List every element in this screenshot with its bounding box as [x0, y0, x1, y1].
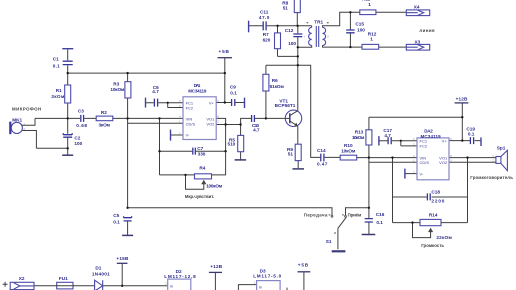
- transistor Q1 : VT1 BCP56T1: [285, 110, 301, 126]
- svg-text:100: 100: [74, 141, 82, 146]
- microphone MK1: [11, 122, 22, 133]
- svg-text:4.7: 4.7: [253, 128, 260, 133]
- svg-text:+15В: +15В: [116, 256, 129, 261]
- wire: S1 pole: [337, 228, 339, 249]
- node: FC jumper DA2: [400, 140, 402, 142]
- capacitor C12: [293, 34, 302, 37]
- wire: C11 input run y=25.8: [249, 25, 312, 27]
- wire: D3 input segment: [238, 285, 256, 290]
- node: V+ wire junction DA1: [224, 101, 226, 103]
- svg-text:0.1: 0.1: [230, 91, 237, 96]
- svg-text:C1: C1: [53, 56, 59, 61]
- svg-text:C7: C7: [197, 146, 203, 151]
- wire: R8 bottom lead: [296, 13, 298, 26]
- svg-text:FC2: FC2: [420, 144, 428, 149]
- node A: C1/R1/rail junction: [67, 72, 69, 74]
- node: R14 wiper tap junction: [411, 221, 413, 223]
- svg-text:R6: R6: [272, 78, 278, 83]
- wire: C1/R1/C2 vertical column: [67, 50, 69, 156]
- capacitor C6 (terminal bar + plates): [145, 98, 147, 108]
- wire: C18 run: [393, 196, 468, 198]
- node: TR1 primary bottom junction: [297, 46, 299, 48]
- svg-text:+12В: +12В: [210, 264, 222, 269]
- switch S1 pole tick: [334, 232, 336, 234]
- svg-text:X4: X4: [414, 4, 420, 9]
- svg-text:1N4001: 1N4001: [92, 271, 110, 276]
- wire: mic signal wire y=118.4: [35, 117, 183, 119]
- power +5V symbol (bottom): [298, 271, 311, 273]
- ground (R9): [293, 168, 305, 170]
- svg-text:+5В: +5В: [219, 49, 230, 54]
- svg-text:C2: C2: [74, 136, 80, 141]
- wire: C16 leads: [368, 208, 370, 234]
- wire: TR1 primary top stub: [311, 26, 313, 28]
- wire: +5V bottom tap: [303, 272, 305, 290]
- wire: C18/R14 loop left vertical: [392, 158, 394, 223]
- svg-text:22кОм: 22кОм: [436, 235, 452, 240]
- regulator D2 LM117-12.8: [168, 279, 191, 290]
- node: VO1/VO2 crossing junction: [224, 123, 226, 125]
- svg-text:51: 51: [283, 6, 289, 11]
- wire: R6 top to collector node: [266, 64, 298, 66]
- wire: S1 lever: [338, 217, 346, 228]
- svg-text:линия: линия: [419, 28, 435, 33]
- svg-text:II: II: [327, 34, 329, 38]
- svg-text:FU1: FU1: [59, 276, 68, 281]
- wire: mic pin1 to signal wire: [23, 118, 36, 125]
- capacitor C17 (terminal bar + plates): [378, 136, 380, 145]
- capacitor C1: [62, 48, 73, 50]
- potentiometer R14: [420, 219, 441, 225]
- node: C10/R6 junction: [265, 117, 267, 119]
- node: receive/C16/R13 junction: [368, 207, 370, 209]
- wire: R4 wiper loop: [186, 175, 204, 189]
- potentiometer R4: [195, 174, 212, 179]
- wire: C17 to DA2 FC jumper: [379, 141, 417, 146]
- wire: C7 feedback run y=151.2: [160, 150, 226, 152]
- resistor R10: [340, 155, 357, 160]
- svg-text:10кОм: 10кОм: [341, 148, 356, 153]
- wire: DA2 CD/S pin wire: [369, 161, 417, 163]
- wire: +12V rail y=117.2: [369, 116, 462, 118]
- ground (C5): [122, 234, 133, 236]
- node: R7/collector junction: [297, 55, 299, 57]
- svg-text:R13: R13: [355, 130, 364, 135]
- wire: TR1 secondary bottom to R12: [323, 45, 363, 47]
- wire: R6 column: [265, 65, 267, 118]
- svg-text:LM117-5.0: LM117-5.0: [253, 274, 281, 279]
- svg-text:100: 100: [288, 41, 296, 46]
- svg-text:Громкоговоритель: Громкоговоритель: [470, 175, 513, 180]
- switch S1 receive contact: [345, 215, 347, 217]
- capacitor C5: [124, 218, 132, 221]
- svg-text:100кОм: 100кОм: [206, 183, 223, 188]
- power +12V symbol (bottom): [209, 271, 222, 273]
- svg-text:Мкр.чувствит.: Мкр.чувствит.: [185, 194, 214, 199]
- svg-text:S1: S1: [326, 239, 332, 244]
- wire: R10/C14 to DA2 VIN: [357, 157, 417, 159]
- capacitor C3: [81, 115, 84, 122]
- svg-text:C16: C16: [376, 212, 385, 217]
- svg-text:0.68: 0.68: [76, 123, 87, 128]
- svg-text:LM117-12,8: LM117-12,8: [164, 274, 196, 279]
- wire: R13 column: [368, 117, 370, 208]
- node: FC jumper DA1: [167, 102, 169, 104]
- resistor R13: [366, 130, 372, 145]
- svg-text:MK1: MK1: [12, 118, 22, 123]
- wire: DA2 VO1 to speaker: [449, 157, 496, 159]
- wire: R14 bottom run: [393, 222, 468, 224]
- node: R13/VIN wire DA2 junction: [368, 156, 370, 158]
- svg-text:+12В: +12В: [456, 96, 468, 101]
- ground (S1): [332, 250, 346, 252]
- svg-text:R7: R7: [263, 32, 269, 37]
- node: C5/switch wire junction: [126, 207, 128, 209]
- capacitor C16: [365, 219, 373, 222]
- svg-text:C9: C9: [230, 85, 236, 90]
- svg-text:CD/S: CD/S: [186, 121, 196, 126]
- ground (R5): [235, 159, 247, 161]
- diode D1 1N4001: [95, 280, 103, 290]
- resistor R1: [65, 85, 71, 103]
- node: C11/R7 junction: [276, 25, 278, 27]
- svg-text:510: 510: [227, 141, 235, 146]
- svg-text:R10: R10: [344, 143, 353, 148]
- wire: mic pin2 to return wire: [23, 131, 68, 149]
- node: C15 top junction: [349, 11, 351, 13]
- wire: R12 to X3: [379, 46, 407, 48]
- svg-text:V+: V+: [209, 100, 215, 105]
- connector X4: [406, 10, 429, 16]
- svg-text:V-: V-: [420, 171, 424, 176]
- svg-text:V+: V+: [442, 139, 448, 144]
- resistor R3: [125, 82, 131, 98]
- capacitor C15: [346, 30, 354, 33]
- svg-text:0.1: 0.1: [53, 63, 60, 68]
- svg-text:R14: R14: [429, 212, 438, 217]
- node: rail/R3 top junction: [126, 72, 128, 74]
- svg-text:2200: 2200: [431, 199, 444, 204]
- resistor R9: [295, 144, 301, 160]
- svg-text:10кОм: 10кОм: [110, 87, 125, 92]
- svg-text:4.7: 4.7: [384, 133, 391, 138]
- wire: TR1 secondary top to line: [323, 12, 360, 27]
- svg-text:МИКРОФОН: МИКРОФОН: [12, 107, 41, 112]
- resistor R8: [294, 0, 300, 13]
- svg-text:1: 1: [368, 2, 371, 7]
- svg-text:4.7: 4.7: [152, 89, 159, 94]
- resistor R6: [263, 74, 269, 91]
- svg-text:X2: X2: [19, 276, 25, 281]
- loudspeaker Sp1: [496, 157, 501, 164]
- node: C15 bottom junction: [349, 46, 351, 48]
- power +5V symbol: [218, 57, 233, 59]
- svg-text:VO2: VO2: [439, 160, 448, 165]
- capacitor C11 (terminal bar + plates): [248, 21, 250, 33]
- plus sign power input: [3, 282, 8, 287]
- svg-text:1: 1: [370, 37, 373, 42]
- wire: DA2 V+ to C19: [449, 140, 481, 142]
- svg-text:In: In: [259, 284, 262, 289]
- svg-text:3кОм: 3кОм: [51, 94, 65, 99]
- wire: collector node column C12 to VT1: [297, 37, 299, 111]
- wire: DA2 V- pin: [405, 173, 417, 175]
- regulator D3 LM117-5.0: [257, 281, 281, 290]
- node: VO1/loop right junction: [466, 156, 468, 158]
- op-amp U2 : DA2 MC34119 body: [417, 138, 449, 180]
- terminal bar DA1 V-: [170, 130, 172, 141]
- wire: receive contact to C16/R13 node: [346, 208, 369, 216]
- wire: branch to C14 long vertical: [298, 65, 340, 157]
- ground (C16): [362, 234, 376, 236]
- op-amp U1 : DA1 MC34119 body: [183, 97, 216, 140]
- svg-text:Громкость: Громкость: [421, 243, 444, 248]
- resistor R7: [275, 33, 281, 49]
- node: VIN/C7 vertical junction: [158, 117, 160, 119]
- resistor R5: [238, 135, 244, 151]
- wire: C12 leads: [297, 26, 299, 34]
- wire: R11 to X4: [376, 11, 406, 13]
- switch S1 transmit contact: [331, 215, 333, 217]
- node: C7 left junction: [158, 150, 160, 152]
- wire: R5 branch and ground stub: [240, 125, 242, 160]
- svg-text:C15: C15: [355, 21, 364, 26]
- wire: DA1 VO2: [216, 124, 240, 126]
- svg-text:0.1: 0.1: [113, 219, 120, 224]
- svg-text:0.1: 0.1: [376, 220, 383, 225]
- capacitor C14: [321, 154, 324, 162]
- wire: +5V drop to DA1 V+: [224, 58, 226, 103]
- svg-text:Передача: Передача: [304, 213, 328, 218]
- svg-text:3кОм: 3кОм: [99, 122, 111, 127]
- svg-text:+5В: +5В: [298, 263, 309, 268]
- wire: D3 output stub: [286, 288, 288, 290]
- wire: DA1 V- pin: [171, 134, 184, 136]
- svg-text:X3: X3: [415, 39, 421, 44]
- svg-text:D1: D1: [95, 266, 101, 271]
- connector X2: [10, 282, 34, 289]
- capacitor C18: [427, 193, 430, 200]
- wire: power input run y=285.8: [34, 285, 168, 287]
- wire: VT1 emitter down to R9: [297, 126, 299, 168]
- fuse FU1: [57, 282, 73, 289]
- terminal bar DA2 V-: [404, 169, 406, 179]
- node: +12V rail junction: [461, 116, 463, 118]
- power +15V symbol: [117, 262, 128, 264]
- node: C7 right junction: [224, 150, 226, 152]
- node: VO2/R5/C10 junction: [239, 123, 241, 125]
- svg-text:C3: C3: [78, 109, 84, 114]
- node: loop left/VIN DA2 junction: [391, 156, 393, 158]
- wire: +12V drop to DA2 V+: [461, 103, 463, 141]
- svg-text:Sp1: Sp1: [497, 146, 506, 151]
- wire: C15 shunt across line: [349, 12, 351, 47]
- svg-text:FC2: FC2: [186, 105, 194, 110]
- wire: C18/R14 loop right vertical: [467, 158, 469, 223]
- wire: R14 wiper loop: [413, 223, 431, 238]
- wire: DA2 VO2 to speaker: [449, 161, 496, 163]
- capacitor C9 (plates + terminal bar): [232, 99, 235, 106]
- svg-text:330: 330: [198, 152, 206, 157]
- svg-text:In: In: [170, 283, 173, 288]
- resistor R2: [96, 116, 113, 121]
- svg-text:R4: R4: [199, 165, 205, 170]
- wire: C10 run to VT1 base: [241, 118, 290, 124]
- svg-text:47.0: 47.0: [259, 15, 270, 20]
- wire: +12V bottom tap: [214, 272, 216, 290]
- svg-text:10кОм: 10кОм: [352, 135, 365, 140]
- wire: C5 ground stub: [127, 221, 129, 235]
- svg-text:100: 100: [357, 28, 365, 33]
- node: R1/signal wire junction: [67, 117, 69, 119]
- resistor R12: [362, 44, 379, 49]
- wire: DA1 CD/S pin wire: [128, 122, 183, 124]
- wire: R7 branch: [278, 26, 298, 57]
- svg-text:C14: C14: [317, 148, 326, 153]
- capacitor C2: [63, 135, 72, 138]
- node: C2/mic return junction: [67, 147, 69, 149]
- node: +15V tap junction: [121, 285, 123, 287]
- wire: C7 left vertical from VIN wire: [160, 118, 195, 174]
- svg-text:R3: R3: [113, 82, 119, 87]
- svg-text:51кОм: 51кОм: [270, 84, 285, 89]
- capacitor C7: [193, 148, 196, 155]
- wire: switch feed from DA1 CD/S y=207.8: [128, 208, 332, 216]
- svg-text:Приём: Приём: [348, 213, 362, 218]
- wire: DA1 VO1 down: [216, 118, 225, 151]
- node: V+ wire junction DA2: [461, 139, 463, 141]
- svg-text:CD/S: CD/S: [420, 160, 430, 165]
- svg-text:V-: V-: [186, 133, 190, 138]
- wire: TR1 primary bottom to collector node: [298, 45, 312, 47]
- ground (C2 / mic return): [62, 154, 73, 156]
- svg-text:0.1: 0.1: [468, 132, 475, 137]
- svg-text:620: 620: [263, 37, 271, 42]
- connector X3: [406, 44, 429, 50]
- capacitor C19 (plates + terminal bar): [470, 137, 473, 144]
- wire: R3 column down to switch wire: [127, 73, 129, 208]
- svg-text:R12: R12: [368, 31, 377, 36]
- node: +5V rail junction: [224, 72, 226, 74]
- svg-text:R2: R2: [101, 110, 107, 115]
- svg-text:VO2: VO2: [206, 121, 215, 126]
- svg-text:51: 51: [288, 151, 294, 156]
- node: R4 wiper tap junction: [184, 174, 186, 176]
- power +12V symbol (top): [455, 102, 469, 104]
- svg-text:DA1: DA1: [194, 83, 201, 88]
- wire: R4 right side up: [212, 151, 226, 175]
- svg-text:R1: R1: [56, 88, 62, 93]
- svg-text:BCP56T1: BCP56T1: [275, 103, 296, 108]
- wire: +5V bias rail y=73: [68, 72, 225, 74]
- wire: C6 to FC1/FC2 jumper: [146, 103, 184, 108]
- wire: DA1 V+ to C9: [216, 102, 244, 104]
- node: R6/C14 branch junction: [297, 64, 299, 66]
- resistor R11: [360, 10, 376, 15]
- wire: +15V tap: [121, 263, 123, 286]
- node: R8/C12/TR1 junction: [296, 25, 298, 27]
- svg-text:MC34119: MC34119: [188, 89, 207, 94]
- svg-text:C18: C18: [431, 190, 440, 195]
- svg-text:C5: C5: [113, 213, 119, 218]
- svg-text:TR1: TR1: [314, 20, 323, 25]
- node: R3/VIN wire junction: [126, 117, 128, 119]
- svg-text:C12: C12: [285, 28, 294, 33]
- svg-text:0.47: 0.47: [317, 162, 328, 167]
- capacitor C10: [252, 115, 255, 122]
